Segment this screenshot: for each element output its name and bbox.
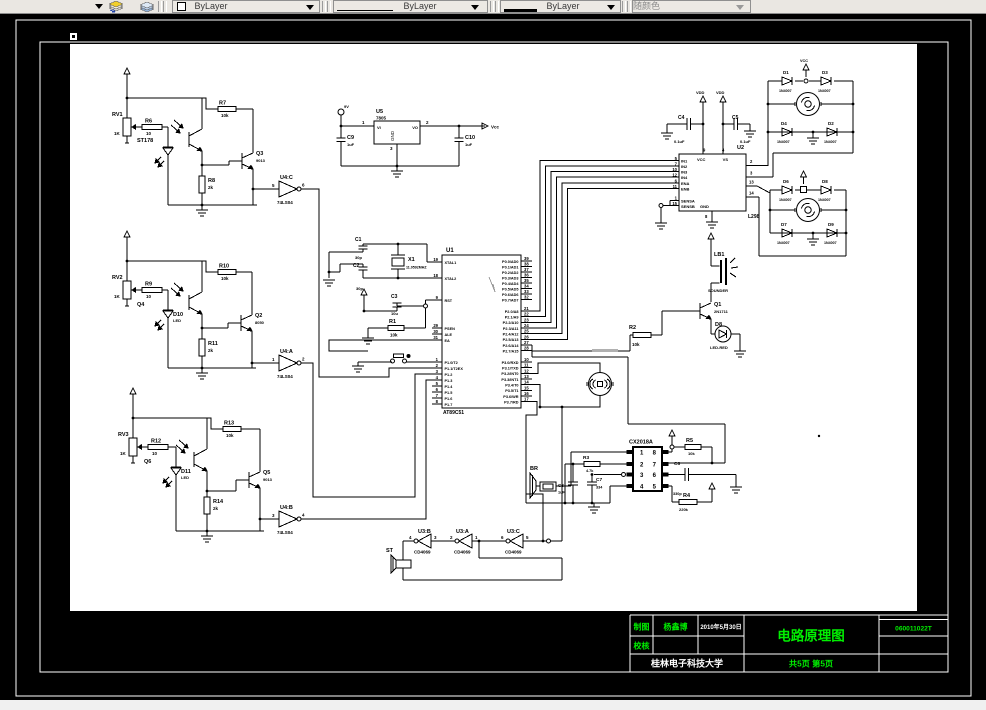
svg-text:R11: R11 xyxy=(208,341,218,347)
resistor R5 xyxy=(674,438,701,456)
svg-text:P2.7/A15: P2.7/A15 xyxy=(503,349,519,353)
svg-text:U3:A: U3:A xyxy=(456,529,469,535)
svg-text:P0.4/AD4: P0.4/AD4 xyxy=(502,282,519,286)
svg-text:C7: C7 xyxy=(596,477,602,483)
wire top rail xyxy=(768,79,853,83)
svg-text:P2.5/A13: P2.5/A13 xyxy=(503,338,519,342)
wire right rail xyxy=(845,190,847,256)
svg-text:1N4007: 1N4007 xyxy=(777,140,790,144)
wire xyxy=(340,120,374,127)
transistor Q3 xyxy=(242,151,266,169)
capacitor C5 xyxy=(722,115,751,144)
svg-text:R10: R10 xyxy=(219,264,229,270)
svg-text:LED: LED xyxy=(173,318,181,323)
resistor R4 xyxy=(679,493,697,512)
svg-text:D6: D6 xyxy=(783,179,789,184)
svg-text:Q2: Q2 xyxy=(255,313,262,319)
svg-text:RV2: RV2 xyxy=(112,275,123,281)
title block grid xyxy=(630,615,948,672)
svg-text:32: 32 xyxy=(524,295,529,300)
wire xyxy=(168,447,176,467)
resistor R6 xyxy=(142,119,162,137)
svg-text:16: 16 xyxy=(524,391,529,396)
svg-text:XTAL2: XTAL2 xyxy=(445,277,457,281)
svg-text:P3.0/RXD: P3.0/RXD xyxy=(502,361,519,365)
svg-text:74LS04: 74LS04 xyxy=(277,200,293,205)
svg-text:ST178: ST178 xyxy=(137,138,153,144)
svg-text:电路原理图: 电路原理图 xyxy=(777,628,845,644)
capacitor C10 xyxy=(455,126,476,166)
svg-text:74LS04: 74LS04 xyxy=(277,374,293,379)
svg-text:X1: X1 xyxy=(408,257,415,263)
svg-text:U3:C: U3:C xyxy=(507,529,520,535)
svg-text:VCC: VCC xyxy=(697,157,706,162)
svg-text:EA: EA xyxy=(445,339,451,343)
ground xyxy=(323,280,335,286)
VCC power symbol xyxy=(668,430,675,452)
node junction xyxy=(206,490,209,493)
wire to pin1 xyxy=(556,452,627,486)
svg-text:U4:C: U4:C xyxy=(280,175,293,181)
wire xyxy=(162,127,168,147)
svg-text:RV3: RV3 xyxy=(118,432,129,438)
svg-text:校核: 校核 xyxy=(634,641,650,651)
svg-text:10k: 10k xyxy=(221,113,229,118)
svg-text:PSEN: PSEN xyxy=(445,327,456,331)
diode D2 xyxy=(824,121,837,144)
svg-text:P2.0/A8: P2.0/A8 xyxy=(505,310,519,314)
ground xyxy=(352,366,364,372)
svg-text:P1.3: P1.3 xyxy=(445,379,453,383)
ground xyxy=(655,223,667,229)
phototransistor Q4 xyxy=(171,261,202,328)
svg-text:8050: 8050 xyxy=(255,320,265,325)
wire xyxy=(368,328,388,338)
svg-text:P1.5: P1.5 xyxy=(445,391,453,395)
svg-text:D8: D8 xyxy=(715,322,722,328)
motor driver U2 L298 xyxy=(672,145,759,220)
svg-text:P0.0/AD0: P0.0/AD0 xyxy=(502,260,518,264)
opto interrupter label Q4 xyxy=(137,302,145,308)
wire xyxy=(252,169,255,205)
coupling network C8 xyxy=(536,482,565,495)
wire xyxy=(651,311,700,335)
9V input terminal xyxy=(338,104,349,126)
wire xyxy=(746,191,846,257)
sonic receiver IC CX20106A xyxy=(627,440,668,492)
diode D3 xyxy=(818,70,831,93)
svg-text:11: 11 xyxy=(524,363,529,368)
svg-text:VDD: VDD xyxy=(696,90,705,95)
svg-text:P1.0/T2: P1.0/T2 xyxy=(445,361,458,365)
svg-text:Q3: Q3 xyxy=(256,151,263,157)
svg-text:C6: C6 xyxy=(674,461,680,467)
wire EA to ground xyxy=(329,340,432,351)
wire xyxy=(812,131,815,138)
svg-text:330p: 330p xyxy=(673,492,682,496)
dc motor M2 xyxy=(769,199,848,222)
svg-text:R13: R13 xyxy=(224,421,234,427)
resistor R10 xyxy=(202,261,236,281)
ground xyxy=(744,131,756,137)
svg-text:C10: C10 xyxy=(465,135,475,141)
svg-text:D4: D4 xyxy=(781,121,787,126)
svg-text:36: 36 xyxy=(524,273,529,278)
wire xyxy=(660,208,662,224)
svg-text:Vcc: Vcc xyxy=(491,125,500,130)
wire xyxy=(701,447,713,464)
svg-text:C4: C4 xyxy=(678,115,685,121)
diode D8 xyxy=(818,179,831,202)
ground xyxy=(391,166,403,177)
wire xyxy=(746,159,768,166)
inverter U3:B xyxy=(409,529,437,555)
capacitor C9 xyxy=(337,126,355,166)
opto interrupter label ST178 xyxy=(137,138,153,144)
svg-text:2010年5月30日: 2010年5月30日 xyxy=(700,623,741,631)
wire xyxy=(431,540,455,542)
capacitor C3 xyxy=(391,294,402,316)
VCC power symbol xyxy=(709,483,715,496)
svg-text:0.1uF: 0.1uF xyxy=(740,139,751,144)
VCC power symbol xyxy=(361,289,367,312)
VCC power symbol xyxy=(708,233,714,246)
svg-text:9013: 9013 xyxy=(263,477,273,482)
stray mark xyxy=(818,435,820,437)
resistor R3 xyxy=(583,455,600,473)
svg-text:11: 11 xyxy=(673,184,678,189)
svg-text:XTAL1: XTAL1 xyxy=(445,261,457,265)
svg-text:12: 12 xyxy=(524,368,529,373)
svg-text:P3.4/T0: P3.4/T0 xyxy=(505,383,518,387)
svg-text:LB1: LB1 xyxy=(714,252,724,258)
svg-text:Q6: Q6 xyxy=(144,459,151,465)
svg-text:U4:A: U4:A xyxy=(280,349,293,355)
svg-text:VI: VI xyxy=(377,125,381,130)
wire xyxy=(207,480,249,491)
svg-text:19: 19 xyxy=(433,257,438,262)
svg-text:P0.7/AD7: P0.7/AD7 xyxy=(502,298,518,302)
resistor R2 xyxy=(629,325,651,347)
svg-text:13: 13 xyxy=(524,374,529,379)
svg-text:IN1: IN1 xyxy=(681,159,688,164)
microcontroller U1 AT89C51 xyxy=(432,248,532,416)
svg-text:R8: R8 xyxy=(208,178,215,184)
wire xyxy=(341,144,459,167)
svg-text:1N4007: 1N4007 xyxy=(777,241,790,245)
wire xyxy=(525,494,527,503)
svg-text:2N1711: 2N1711 xyxy=(714,309,729,314)
ground xyxy=(730,487,742,493)
svg-text:R3: R3 xyxy=(583,455,589,461)
inverter U4:B xyxy=(260,505,305,535)
potentiometer RV2 xyxy=(112,275,142,306)
wire left rail xyxy=(767,81,770,166)
svg-text:1N4007: 1N4007 xyxy=(779,89,792,93)
resistor R9 xyxy=(142,282,162,300)
wire xyxy=(127,97,202,99)
potentiometer RV3 xyxy=(118,432,148,463)
resistor R8 xyxy=(199,165,215,205)
wire xyxy=(420,125,485,128)
svg-text:U1: U1 xyxy=(446,248,454,254)
svg-text:P2.2/A10: P2.2/A10 xyxy=(503,321,519,325)
wire top rail xyxy=(770,187,846,193)
svg-text:桂林电子科技大学: 桂林电子科技大学 xyxy=(650,658,723,669)
svg-text:10k: 10k xyxy=(390,333,398,338)
wire to U3 chain xyxy=(561,407,563,541)
node junction xyxy=(201,327,204,330)
svg-text:P0.6/AD6: P0.6/AD6 xyxy=(502,293,518,297)
ground xyxy=(196,205,208,216)
svg-text:220k: 220k xyxy=(679,507,689,512)
svg-text:38: 38 xyxy=(524,262,529,267)
svg-text:U2: U2 xyxy=(737,145,744,151)
svg-text:C3: C3 xyxy=(391,294,398,300)
wire xyxy=(259,488,262,531)
svg-text:共5页 第5页: 共5页 第5页 xyxy=(789,659,833,669)
svg-text:24: 24 xyxy=(524,323,529,328)
svg-text:2k: 2k xyxy=(208,185,214,190)
ground xyxy=(734,351,746,357)
svg-text:27: 27 xyxy=(524,340,529,345)
svg-text:10u: 10u xyxy=(391,311,398,316)
svg-text:10: 10 xyxy=(524,357,529,362)
node junction xyxy=(132,417,135,420)
svg-text:15: 15 xyxy=(524,385,529,390)
svg-text:P0.5/AD5: P0.5/AD5 xyxy=(502,287,518,291)
svg-text:29: 29 xyxy=(433,323,438,328)
svg-text:R5: R5 xyxy=(686,438,693,444)
svg-text:D8: D8 xyxy=(822,179,828,184)
capacitor C8b xyxy=(568,464,578,503)
svg-text:334: 334 xyxy=(596,486,603,490)
VCC power symbol xyxy=(800,59,809,77)
svg-text:P1.1/T2EX: P1.1/T2EX xyxy=(445,367,464,371)
svg-text:1K: 1K xyxy=(114,131,121,136)
wire XTAL2 net xyxy=(363,277,432,280)
svg-text:杨鑫博: 杨鑫博 xyxy=(664,622,688,632)
svg-text:P3.1/TXD: P3.1/TXD xyxy=(502,366,519,370)
svg-text:26: 26 xyxy=(524,334,529,339)
sounder LB1 xyxy=(708,246,738,302)
wire xyxy=(746,153,853,177)
svg-text:21: 21 xyxy=(524,306,529,311)
svg-text:10: 10 xyxy=(146,131,152,136)
svg-text:VCC: VCC xyxy=(800,59,808,63)
svg-text:34: 34 xyxy=(524,284,529,289)
ground rail wire xyxy=(526,502,610,505)
wire xyxy=(241,429,260,472)
svg-text:1N4007: 1N4007 xyxy=(779,198,792,202)
ultrasonic transducer ST xyxy=(386,548,411,573)
ground xyxy=(807,138,819,144)
wire pin5 xyxy=(668,486,679,502)
svg-text:LED: LED xyxy=(181,475,189,480)
diode D1 xyxy=(779,70,792,93)
resistor R1 xyxy=(388,319,404,338)
svg-text:2k: 2k xyxy=(213,506,219,511)
wire U4:B output to P1.3 xyxy=(301,380,432,519)
svg-text:1K: 1K xyxy=(120,451,127,456)
wire xyxy=(202,161,242,165)
phototransistor Q6 xyxy=(176,418,207,491)
svg-text:CD4069: CD4069 xyxy=(454,550,471,555)
VCC power symbol xyxy=(124,231,130,281)
svg-text:14: 14 xyxy=(749,191,754,196)
svg-text:1K: 1K xyxy=(114,294,121,299)
wire xyxy=(236,109,253,153)
diode D7 xyxy=(777,222,792,245)
svg-text:74LS04: 74LS04 xyxy=(277,530,293,535)
voltage regulator U5 7805 xyxy=(374,109,429,151)
svg-text:23: 23 xyxy=(524,317,529,322)
phototransistor ST178 xyxy=(171,98,202,165)
svg-text:R1: R1 xyxy=(389,319,396,325)
wire xyxy=(133,417,207,419)
ground rail wire xyxy=(176,530,264,533)
svg-text:P3.7/RD: P3.7/RD xyxy=(504,400,519,404)
svg-text:P0.1/AD1: P0.1/AD1 xyxy=(502,265,518,269)
wire P2.6 feed xyxy=(532,345,628,357)
svg-text:CD4069: CD4069 xyxy=(414,550,431,555)
svg-text:P2.6/A14: P2.6/A14 xyxy=(503,344,520,348)
wire pin7 xyxy=(668,462,725,464)
wire xyxy=(403,568,562,580)
svg-text:VO: VO xyxy=(412,125,418,130)
svg-text:ENA: ENA xyxy=(681,181,690,186)
VDD power symbol xyxy=(716,90,726,154)
svg-text:30: 30 xyxy=(433,329,438,334)
svg-text:1N4007: 1N4007 xyxy=(824,140,837,144)
svg-text:P1.2: P1.2 xyxy=(445,373,453,377)
wire xyxy=(565,463,627,503)
svg-text:VS: VS xyxy=(723,157,729,162)
svg-text:1N4007: 1N4007 xyxy=(824,241,837,245)
VCC power symbol xyxy=(130,388,136,438)
inverter U3:C xyxy=(501,529,529,555)
resistor R7 xyxy=(202,98,236,118)
wire xyxy=(162,290,168,310)
infrared LED D11 xyxy=(163,467,191,531)
svg-text:P1.6: P1.6 xyxy=(445,397,453,401)
svg-text:D3: D3 xyxy=(822,70,828,75)
svg-text:1N4007: 1N4007 xyxy=(818,198,831,202)
svg-text:P3.3/INT1: P3.3/INT1 xyxy=(501,378,518,382)
svg-text:P3.5/T1: P3.5/T1 xyxy=(505,389,518,393)
ground rail wire xyxy=(168,204,257,207)
svg-text:10: 10 xyxy=(146,294,152,299)
inverter U4:C xyxy=(253,175,305,205)
svg-text:R4: R4 xyxy=(683,493,691,499)
svg-text:14: 14 xyxy=(524,380,529,385)
svg-text:060011022T: 060011022T xyxy=(895,626,932,633)
svg-text:D2: D2 xyxy=(828,121,834,126)
wire pin4 xyxy=(610,486,627,503)
svg-text:Q1: Q1 xyxy=(714,302,721,308)
svg-text:1N4007: 1N4007 xyxy=(818,89,831,93)
ground xyxy=(588,503,600,513)
node junction xyxy=(126,97,129,100)
svg-text:C5: C5 xyxy=(732,115,739,121)
resistor R13 xyxy=(207,418,241,438)
wire bottom rail xyxy=(770,232,847,235)
svg-text:P2.1/A9: P2.1/A9 xyxy=(505,315,519,319)
svg-text:12: 12 xyxy=(672,173,677,178)
svg-text:P2.3/A11: P2.3/A11 xyxy=(503,327,519,331)
transistor Q5 xyxy=(249,470,273,488)
diode D4 xyxy=(777,121,792,144)
svg-text:制图: 制图 xyxy=(634,622,650,632)
dc motor M1 xyxy=(768,93,853,116)
svg-text:2k: 2k xyxy=(208,348,214,353)
svg-text:10k: 10k xyxy=(688,451,695,456)
potentiometer RV1 xyxy=(112,112,142,143)
svg-text:R2: R2 xyxy=(629,325,636,331)
ground xyxy=(807,239,819,245)
svg-text:1uF: 1uF xyxy=(465,142,473,147)
svg-text:P1.7: P1.7 xyxy=(445,403,453,407)
svg-text:25: 25 xyxy=(524,329,529,334)
svg-text:11.0592MHZ: 11.0592MHZ xyxy=(406,266,427,270)
wire U4:A output to P1.2 xyxy=(301,363,432,497)
svg-text:R14: R14 xyxy=(213,499,224,505)
svg-text:P2.4/A12: P2.4/A12 xyxy=(503,332,519,336)
svg-text:IN2: IN2 xyxy=(681,164,688,169)
svg-text:R9: R9 xyxy=(145,282,152,288)
svg-text:22: 22 xyxy=(524,312,529,317)
transistor Q1 xyxy=(700,302,729,319)
svg-text:0.1uF: 0.1uF xyxy=(674,139,685,144)
wire P2.7 to R2 xyxy=(532,335,633,351)
svg-text:LED-RED: LED-RED xyxy=(710,345,728,350)
svg-text:30p: 30p xyxy=(355,255,362,260)
wire pin3 xyxy=(591,473,626,477)
wire xyxy=(202,323,241,328)
wire U4:C output to P1.1 xyxy=(301,189,432,377)
svg-text:4.7k: 4.7k xyxy=(586,469,594,473)
resistor R12 xyxy=(148,439,168,457)
wire RST net xyxy=(397,300,432,328)
LED D8 xyxy=(710,319,740,351)
opto interrupter label Q6 xyxy=(144,459,151,465)
ground xyxy=(362,338,374,344)
svg-text:R12: R12 xyxy=(151,439,161,445)
svg-text:U3:B: U3:B xyxy=(418,529,431,535)
svg-text:SENSB: SENSB xyxy=(681,204,695,209)
wire xyxy=(746,180,770,194)
diode D9 xyxy=(824,222,837,245)
wire P3.2 to transducer top xyxy=(532,363,600,373)
wire xyxy=(472,540,562,580)
svg-text:SENSA: SENSA xyxy=(681,199,695,204)
resistor R14 xyxy=(204,491,224,531)
svg-text:13: 13 xyxy=(749,180,754,185)
capacitor C7 xyxy=(587,475,603,504)
svg-text:10k: 10k xyxy=(632,342,640,347)
svg-text:35: 35 xyxy=(524,278,529,283)
svg-text:D7: D7 xyxy=(781,222,787,227)
svg-text:P3.2/INT0: P3.2/INT0 xyxy=(501,372,518,376)
svg-text:33: 33 xyxy=(524,289,529,294)
svg-text:CD4069: CD4069 xyxy=(505,550,522,555)
VCC power symbol xyxy=(801,171,807,184)
wire right rail xyxy=(852,81,855,153)
wire to CX pin7 xyxy=(628,357,725,463)
capacitor C6 xyxy=(668,461,736,496)
inverter U4:A xyxy=(252,349,305,379)
wire xyxy=(403,541,414,560)
